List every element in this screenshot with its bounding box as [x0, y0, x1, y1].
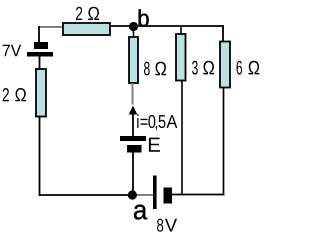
label 8 ohm — [144, 62, 166, 76]
wire from 7V battery to left 2-ohm resistor — [39, 56, 41, 69]
label node a — [134, 205, 147, 220]
wire gray segment from 7V battery corner to top 2-ohm resistor — [38, 26, 63, 28]
battery E positive plate (long thin) — [120, 136, 146, 141]
wire gray segment from node a to 8V battery — [137, 194, 153, 196]
current arrow head (pointing up) — [129, 106, 138, 115]
node b dot — [129, 22, 138, 31]
wire from battery E down to node a — [132, 152, 134, 195]
wire left side down from 2-ohm resistor to bottom rail — [39, 117, 41, 196]
battery 7V negative plate (long thin) — [27, 52, 53, 57]
wire top rail from 2-ohm resistor through node b to right corner — [110, 25, 224, 27]
wire below 6-ohm resistor to bottom-right corner — [223, 88, 225, 196]
battery 7V positive plate (short thick) — [34, 42, 48, 49]
label i=0,5A — [137, 114, 177, 130]
node a dot — [128, 190, 137, 199]
resistor 2-ohm (top horizontal) — [63, 23, 110, 35]
current arrow shaft — [132, 113, 134, 137]
wire gray segment below 8-ohm resistor — [132, 83, 134, 105]
battery 8V negative plate (short thick vertical) — [164, 188, 173, 204]
resistor 6-ohm — [220, 42, 230, 88]
label 8V — [157, 219, 177, 232]
wire bottom-left rail to node a — [39, 194, 133, 196]
label E — [149, 138, 160, 152]
label 3 ohm — [192, 61, 214, 75]
battery E negative plate (short thick) — [127, 145, 142, 153]
label 6 ohm — [237, 61, 260, 75]
wire below 3-ohm resistor to bottom rail — [181, 81, 183, 195]
wire right corner down to 6-ohm resistor top — [222, 25, 224, 41]
resistor 3-ohm — [176, 34, 186, 81]
resistor 8-ohm — [129, 37, 138, 83]
battery 8V positive plate (long thin vertical) — [153, 176, 157, 210]
label node b — [139, 9, 149, 26]
label 2 ohm (left) — [3, 88, 26, 101]
wire vertical from corner down to 7V battery top plate — [38, 26, 40, 43]
wire stub from top rail to 3-ohm resistor top — [180, 26, 182, 34]
label 7V — [3, 45, 21, 56]
resistor 2-ohm (left vertical) — [36, 69, 46, 117]
wire from 8V battery right plate to bottom-right corner — [172, 194, 224, 196]
wire stub from node b down to 8-ohm resistor top — [133, 26, 135, 37]
label 2 ohm (top) — [76, 7, 99, 20]
